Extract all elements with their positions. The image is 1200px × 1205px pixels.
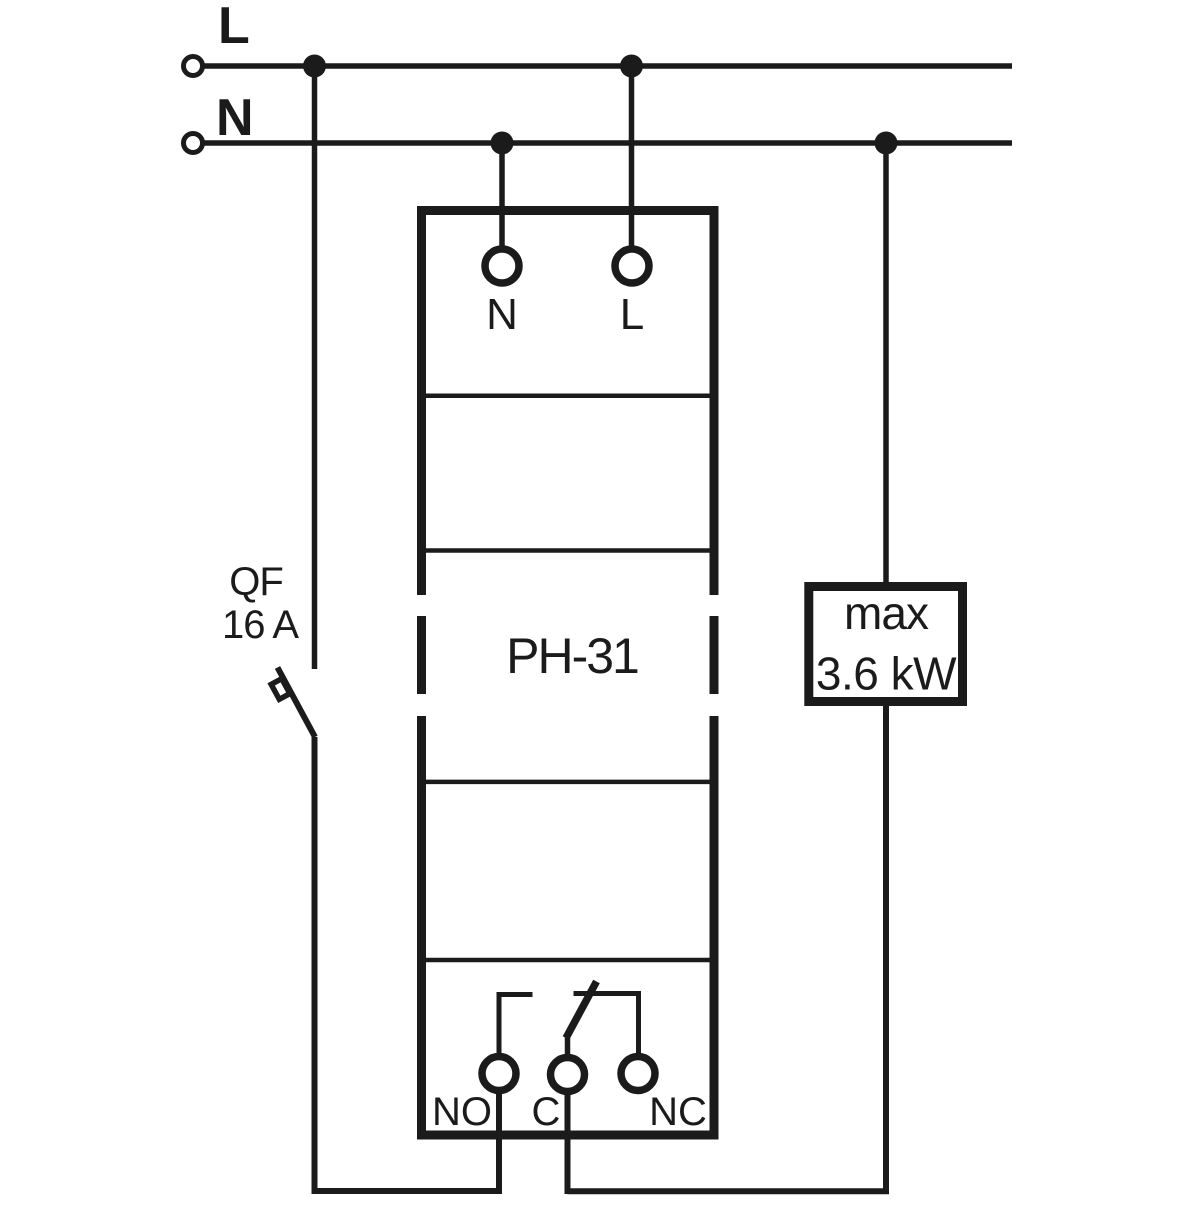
dashed gap right bottom: [705, 694, 723, 716]
divider line 2: [421, 548, 714, 553]
relay NO contact bar: [499, 995, 533, 1055]
junction dot L/QF: [303, 55, 326, 78]
relay C lever: [566, 982, 597, 1039]
terminal N of device: [485, 249, 519, 283]
wire NO terminal down: [496, 1091, 502, 1194]
circuit breaker QF lever: [278, 668, 316, 738]
divider line 3: [421, 780, 714, 785]
wire load box down to C: [568, 690, 887, 1191]
divider line 4: [421, 958, 714, 963]
svg-text:3.6 kW: 3.6 kW: [816, 648, 957, 700]
junction dot N/load: [875, 132, 898, 155]
wire L junction to device terminal L: [629, 66, 635, 250]
svg-text:L: L: [218, 0, 250, 55]
svg-text:C: C: [532, 1090, 561, 1134]
svg-text:QF: QF: [229, 560, 283, 604]
junction dot L/device-L: [620, 55, 643, 78]
svg-text:N: N: [486, 290, 518, 339]
relay C stem: [565, 1036, 571, 1056]
wire L bus: [202, 63, 1012, 69]
svg-text:PH-31: PH-31: [506, 628, 638, 684]
relay NC contact bar: [574, 994, 639, 1055]
terminal L source (open circle): [184, 57, 203, 76]
terminal N source (open circle): [184, 134, 203, 153]
dashed gap right top: [705, 595, 723, 616]
wire N bus: [202, 140, 1012, 146]
wire QF to NO (down and right): [315, 737, 500, 1191]
load max 3.6 kW box: [809, 587, 963, 702]
svg-text:16 A: 16 A: [222, 603, 299, 647]
svg-text:NC: NC: [649, 1090, 707, 1134]
wire C terminal down: [565, 1092, 571, 1194]
svg-text:NO: NO: [432, 1090, 492, 1134]
device PH-31 outline: [422, 211, 715, 1136]
divider line 1: [421, 393, 714, 398]
svg-text:max: max: [844, 587, 929, 639]
wire N junction down to load box: [883, 143, 889, 600]
terminal C: [551, 1058, 585, 1092]
dashed gap left bottom: [412, 694, 430, 716]
junction dot N/device-N: [491, 132, 514, 155]
svg-text:N: N: [216, 89, 254, 147]
terminal L of device: [615, 249, 649, 283]
dashed gap left top: [412, 595, 430, 616]
terminal NC: [621, 1057, 655, 1091]
wire N junction to device terminal N: [499, 143, 505, 250]
terminal NO: [482, 1057, 516, 1091]
svg-text:L: L: [620, 290, 644, 339]
circuit breaker QF square: [271, 679, 290, 700]
wire L junction down to QF: [312, 66, 318, 669]
